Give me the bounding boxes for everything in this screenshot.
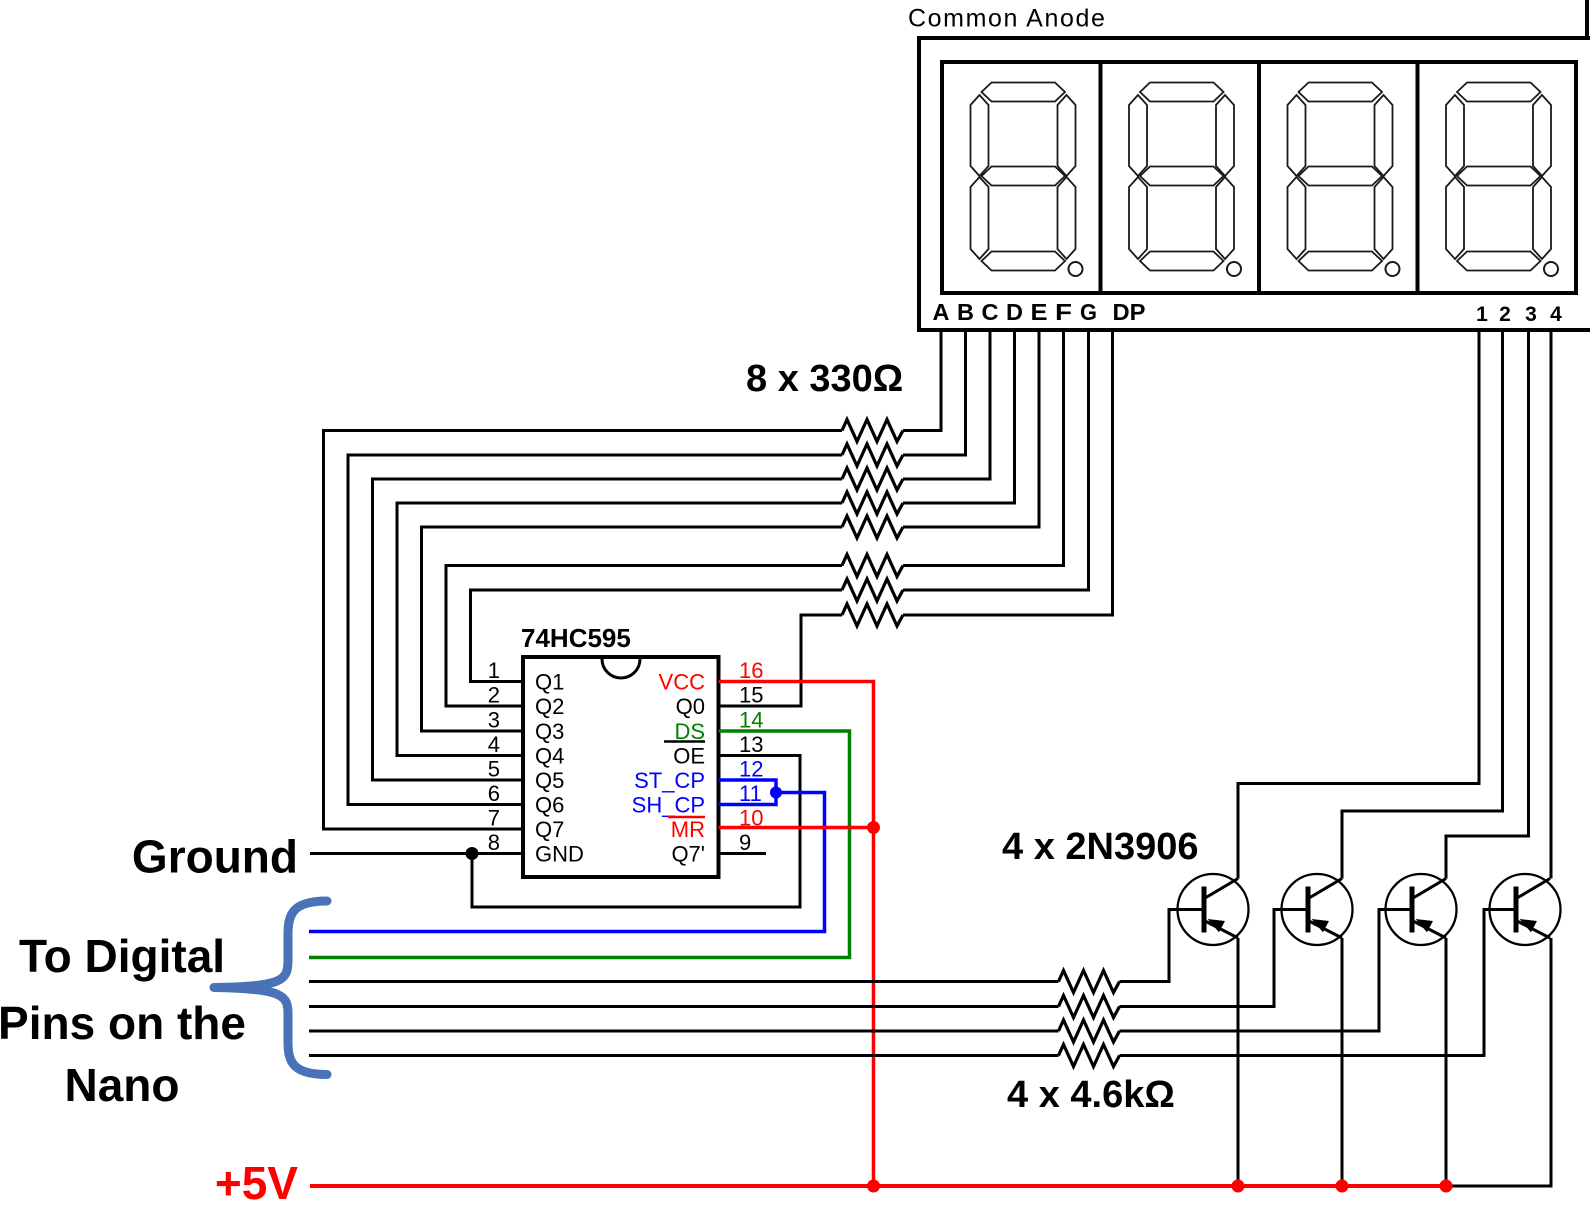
resistor R5 330: [842, 516, 903, 538]
digit 2: [1129, 83, 1241, 277]
overline MR: [668, 816, 705, 819]
svg-text:5: 5: [488, 757, 500, 782]
svg-text:1: 1: [488, 658, 500, 683]
svg-text:G: G: [1080, 299, 1097, 325]
junction GND dot: [466, 847, 479, 860]
wire segment A to resistor row1: [903, 332, 941, 431]
junction red dot rail e2: [1336, 1180, 1349, 1193]
resistor R4 330: [842, 492, 903, 514]
svg-text:GND: GND: [535, 842, 584, 867]
digit 1: [971, 83, 1083, 277]
wire Q0 pin15 to resistor row8: [719, 615, 843, 706]
digit pin labels 1 2 3 4: [1476, 303, 1562, 326]
wire ST_CP SH_CP blue bracket: [719, 780, 777, 805]
wire segment F to resistor row6: [903, 332, 1064, 566]
wire Q2 pin2 to resistor row6: [446, 566, 842, 707]
svg-text:SH_CP: SH_CP: [632, 793, 705, 818]
wire emitter Q2 to rail: [1341, 938, 1344, 1186]
wire segment D to resistor row4: [903, 332, 1015, 503]
wire ground to GND pin8: [310, 852, 523, 855]
svg-text:3: 3: [488, 708, 500, 733]
wire DS pin14 green to nano: [309, 731, 850, 958]
svg-text:VCC: VCC: [659, 670, 706, 695]
digit divider 1: [1099, 62, 1103, 293]
svg-text:Common Anode: Common Anode: [908, 5, 1106, 33]
wire nano row4 to base Q4: [309, 910, 1514, 1056]
wire emitter Q4 to rail: [1446, 938, 1551, 1186]
svg-text:4 x 2N3906: 4 x 2N3906: [1002, 826, 1199, 868]
svg-text:Ground: Ground: [132, 831, 298, 883]
svg-text:4 x 4.6kΩ: 4 x 4.6kΩ: [1007, 1074, 1175, 1116]
svg-text:To Digital: To Digital: [19, 930, 225, 982]
transistor Q3 2N3906: [1386, 874, 1457, 945]
pin names left: [535, 670, 584, 867]
svg-text:OE: OE: [673, 744, 705, 769]
svg-text:Q5: Q5: [535, 768, 564, 793]
svg-text:8 x 330Ω: 8 x 330Ω: [746, 358, 903, 400]
wire collector Q3 to digit pin 3: [1446, 332, 1529, 879]
svg-text:14: 14: [739, 708, 763, 733]
transistor Q2 2N3906: [1282, 874, 1353, 945]
resistor R12 4.6k: [1059, 1045, 1120, 1067]
svg-text:Nano: Nano: [65, 1059, 180, 1111]
transistor Q4 2N3906: [1490, 874, 1561, 945]
svg-text:4: 4: [488, 732, 500, 757]
svg-text:74HC595: 74HC595: [521, 623, 631, 653]
svg-text:2: 2: [1499, 303, 1511, 326]
chip notch: [602, 659, 640, 678]
wire Q4 pin4 to resistor row4: [397, 503, 842, 756]
wire segment E to resistor row5: [903, 332, 1039, 527]
svg-text:ST_CP: ST_CP: [634, 768, 705, 793]
svg-text:6: 6: [488, 781, 500, 806]
svg-text:+5V: +5V: [215, 1157, 298, 1209]
wire collector Q1 to digit pin 1: [1238, 332, 1479, 879]
svg-text:13: 13: [739, 732, 763, 757]
svg-text:A: A: [933, 299, 950, 325]
wire collector Q2 to digit pin 2: [1342, 332, 1503, 879]
digit divider 3: [1416, 62, 1420, 293]
svg-text:12: 12: [739, 757, 763, 782]
svg-text:Q1: Q1: [535, 670, 564, 695]
digit divider 2: [1257, 62, 1261, 293]
wire emitter Q1 to rail: [1237, 938, 1240, 1186]
svg-text:2: 2: [488, 683, 500, 708]
wire collector Q4 to digit pin 4: [1550, 332, 1553, 879]
svg-text:8: 8: [488, 830, 500, 855]
pin names right: [632, 670, 705, 867]
op 74HC595 chip U1: [523, 657, 719, 877]
junction red dot MR: [867, 821, 880, 834]
svg-text:Q7: Q7: [535, 817, 564, 842]
overline OE: [664, 740, 705, 743]
resistor R7 330: [842, 579, 903, 601]
svg-text:1: 1: [1476, 303, 1488, 326]
wire OE pin13 to ground loop: [472, 756, 800, 908]
junction red dot rail e3: [1440, 1180, 1453, 1193]
resistor R9 4.6k: [1059, 971, 1120, 993]
wire MR pin10 red: [719, 826, 874, 830]
svg-text:16: 16: [739, 658, 763, 683]
junction blue dot pin11: [770, 787, 782, 799]
resistor R8 330: [842, 604, 903, 626]
svg-text:MR: MR: [671, 817, 705, 842]
wire nano row3 to base Q3: [309, 910, 1410, 1032]
resistor R1 330: [842, 420, 903, 442]
svg-text:E: E: [1031, 299, 1048, 325]
wire segment DP to resistor row8: [903, 332, 1113, 615]
wire segment G to resistor row7: [903, 332, 1089, 590]
display module outer box: [919, 38, 1590, 330]
wire Q1 pin1 to resistor row7: [471, 590, 843, 682]
svg-text:Q6: Q6: [535, 793, 564, 818]
svg-text:Q3: Q3: [535, 719, 564, 744]
wire emitter Q3 to rail: [1445, 938, 1448, 1186]
svg-text:DP: DP: [1113, 299, 1146, 325]
wire +5V rail red: [310, 1184, 1446, 1188]
wire Q7 pin7 to resistor row1: [324, 431, 843, 830]
svg-text:F: F: [1055, 299, 1072, 325]
svg-text:B: B: [957, 299, 974, 325]
display inner box: [942, 62, 1576, 293]
wire nano row1 to base Q1: [309, 910, 1202, 982]
svg-text:9: 9: [739, 830, 751, 855]
resistor R11 4.6k: [1059, 1020, 1120, 1042]
segment pin labels A B C D E F G DP: [933, 299, 1146, 325]
transistor Q1 2N3906: [1178, 874, 1249, 945]
svg-text:C: C: [982, 299, 999, 325]
svg-text:D: D: [1006, 299, 1023, 325]
svg-text:Q7': Q7': [671, 842, 705, 867]
wire VCC pin16 red to +5V rail: [719, 682, 874, 1187]
svg-text:Q2: Q2: [535, 694, 564, 719]
wire segment B to resistor row2: [903, 332, 966, 455]
wire segment C to resistor row3: [903, 332, 990, 479]
resistor R3 330: [842, 468, 903, 490]
svg-text:11: 11: [739, 781, 762, 806]
svg-text:7: 7: [488, 806, 500, 831]
svg-text:Q0: Q0: [676, 694, 705, 719]
svg-text:15: 15: [739, 683, 763, 708]
svg-text:3: 3: [1525, 303, 1537, 326]
svg-text:Q4: Q4: [535, 744, 564, 769]
junction red dot rail e1: [1232, 1180, 1245, 1193]
wire Q5 pin5 to resistor row3: [373, 479, 843, 780]
junction red dot rail vcc: [867, 1180, 880, 1193]
digit 3: [1288, 83, 1400, 277]
pin numbers left 1-8: [488, 658, 500, 855]
digit 4: [1446, 83, 1558, 277]
wire blue clock to nano: [309, 793, 825, 932]
pin numbers right: [739, 658, 763, 855]
brace to digital pins: [214, 901, 327, 1075]
wire Q7' pin9 stub: [719, 852, 767, 855]
resistor R6 330: [842, 555, 903, 577]
resistor R10 4.6k: [1059, 996, 1120, 1018]
resistor R2 330: [842, 444, 903, 466]
wire Q3 pin3 to resistor row5: [422, 527, 843, 731]
label To Digital Pins on the Nano: [0, 930, 246, 1111]
wire stub top right: [1585, 0, 1589, 40]
svg-text:Pins on the: Pins on the: [0, 997, 246, 1049]
svg-text:4: 4: [1550, 303, 1562, 326]
wire Q6 pin6 to resistor row2: [348, 455, 842, 805]
wire nano row2 to base Q2: [309, 910, 1306, 1007]
